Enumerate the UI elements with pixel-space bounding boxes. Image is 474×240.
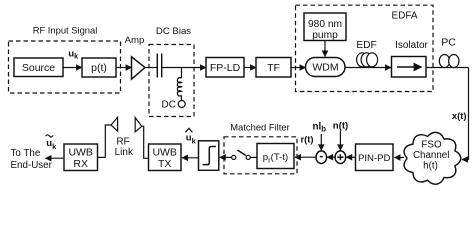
- wire down to FSO cloud: [462, 68, 469, 160]
- svg-text:UWB: UWB: [152, 147, 177, 159]
- svg-text:RF Input Signal: RF Input Signal: [33, 25, 98, 36]
- svg-text:pr(T-t): pr(T-t): [263, 152, 288, 165]
- svg-text:EDF: EDF: [356, 40, 376, 51]
- DC source circle: [178, 101, 185, 108]
- dashed box EDFA: [296, 5, 434, 91]
- inductor coil: [177, 78, 181, 96]
- svg-text:980 nm: 980 nm: [308, 19, 342, 30]
- svg-text:TF: TF: [267, 62, 280, 74]
- svg-text:RF: RF: [116, 136, 129, 147]
- wire FP-LD to TF: [244, 67, 256, 69]
- dashed box Matched Filter: [224, 137, 297, 174]
- inductor branch wire: [181, 68, 183, 79]
- PC fiber coil: [439, 55, 449, 68]
- FSO channel cloud: [404, 132, 461, 184]
- block Isolator: [392, 57, 427, 78]
- wire capacitor to FP-LD: [162, 67, 206, 69]
- svg-text:FP-LD: FP-LD: [210, 62, 241, 74]
- wire slicer to UWB TX: [182, 157, 199, 159]
- svg-text:PIN-PD: PIN-PD: [358, 153, 391, 164]
- wire TF to WDM: [291, 67, 306, 69]
- wire p_r to sampler contact: [250, 156, 257, 158]
- svg-text:UWB: UWB: [68, 147, 93, 159]
- slicer step symbol: [203, 147, 216, 165]
- antenna RX: [111, 117, 118, 131]
- wire nl_b to subtractor: [320, 134, 322, 150]
- wire pump to WDM: [324, 41, 326, 57]
- svg-text:End-User: End-User: [11, 160, 53, 171]
- svg-text:DC: DC: [162, 100, 176, 111]
- block slicer: [199, 141, 219, 171]
- block p_r(T-t): [257, 144, 294, 169]
- svg-text:p(t): p(t): [91, 62, 107, 74]
- sampler right contact: [246, 155, 250, 159]
- wire UWB RX to end user: [46, 157, 65, 159]
- svg-text:Channel: Channel: [413, 150, 450, 161]
- wire p(t) to Amp: [116, 67, 132, 69]
- wire Isolator to PC corner: [426, 67, 469, 69]
- adder plus circle: [335, 151, 346, 164]
- wire adder to subtractor: [327, 156, 335, 158]
- amplifier triangle Amp: [132, 57, 146, 79]
- wire subtractor to matched filter: [295, 156, 316, 158]
- sampler left contact: [232, 155, 236, 159]
- svg-text:x(t): x(t): [452, 110, 467, 121]
- dashed box RF Input Signal: [9, 41, 121, 93]
- svg-text:r(t): r(t): [300, 134, 313, 145]
- wire Amp to capacitor: [145, 67, 157, 69]
- svg-text:EDFA: EDFA: [391, 11, 417, 22]
- svg-text:To The: To The: [11, 148, 41, 159]
- svg-text:PC: PC: [441, 37, 456, 49]
- antenna TX: [135, 118, 142, 132]
- svg-text:Amp: Amp: [125, 35, 145, 46]
- wire WDM to Isolator: [345, 67, 391, 69]
- svg-text:RX: RX: [73, 158, 88, 170]
- block p(t): [82, 58, 116, 77]
- block 980 nm pump: [304, 13, 346, 41]
- svg-text:Source: Source: [22, 62, 55, 74]
- dashed box DC Bias: [149, 45, 194, 117]
- block Source: [14, 58, 63, 77]
- block WDM: [306, 58, 346, 77]
- svg-text:FSO: FSO: [421, 140, 442, 151]
- svg-text:TX: TX: [158, 158, 171, 170]
- svg-text:n(t): n(t): [333, 121, 348, 132]
- EDF fiber coil: [357, 53, 368, 67]
- block PIN-PD: [356, 144, 394, 171]
- block FP-LD: [206, 58, 244, 78]
- svg-text:Matched Filter: Matched Filter: [230, 122, 289, 133]
- svg-text:h(t): h(t): [423, 161, 438, 172]
- sampler arm: [237, 150, 246, 155]
- svg-text:WDM: WDM: [312, 62, 338, 74]
- svg-text:Link: Link: [115, 147, 134, 158]
- svg-text:DC Bias: DC Bias: [156, 26, 191, 37]
- wire cloud to PIN-PD: [395, 157, 405, 159]
- isolator internal arrow: [397, 66, 422, 68]
- block TF: [256, 58, 291, 78]
- wire PIN-PD to adder: [346, 156, 355, 158]
- block UWB TX: [149, 144, 182, 171]
- wire antenna to UWB RX: [98, 125, 112, 157]
- wire sampler to slicer: [220, 156, 232, 158]
- wire UWB TX to antenna: [142, 126, 149, 158]
- wire n(t) to adder: [339, 131, 341, 151]
- subtractor circle: [316, 151, 327, 164]
- svg-text:pump: pump: [312, 30, 338, 41]
- svg-text:Isolator: Isolator: [395, 40, 428, 51]
- block UWB RX: [64, 144, 98, 171]
- wire Source to p(t): [63, 67, 82, 69]
- capacitor plates: [156, 54, 158, 78]
- wire coil to DC source: [180, 95, 182, 100]
